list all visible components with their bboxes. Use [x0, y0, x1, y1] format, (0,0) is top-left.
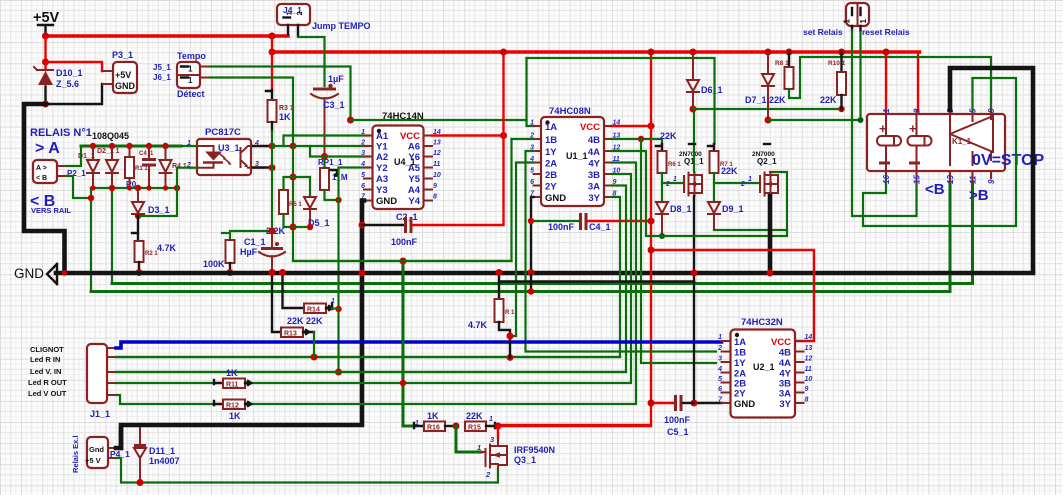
wire GND bus: [56, 271, 1033, 276]
svg-text:2: 2: [665, 181, 670, 188]
wire gate chain down to D8: [661, 183, 663, 202]
svg-text:< B: < B: [36, 175, 47, 182]
svg-text:C3_1: C3_1: [323, 100, 345, 110]
svg-text:13: 13: [946, 175, 955, 184]
svg-text:CLIGNOT: CLIGNOT: [30, 345, 64, 354]
wire Led V IN net: [116, 371, 626, 373]
svg-text:R5 1: R5 1: [289, 202, 302, 208]
resistor R12 1K: [214, 400, 251, 422]
svg-text:R3 1: R3 1: [279, 105, 294, 112]
svg-text:1: 1: [489, 416, 493, 423]
wire D6/Q1 drain net to R10: [693, 108, 842, 110]
svg-text:6: 6: [718, 386, 722, 393]
wire relay pin3 black loop: [950, 68, 1033, 271]
svg-text:12: 12: [805, 356, 813, 363]
wire green over U4 to U1 pin1: [351, 120, 535, 126]
resistor R5: [279, 190, 302, 227]
jumper J4_1 Jump TEMPO: [277, 4, 371, 36]
svg-text:C1_1: C1_1: [244, 237, 266, 247]
svg-text:+5 V: +5 V: [85, 456, 101, 465]
wire red to relay pin1: [885, 52, 887, 110]
wire U4 GND thick black down: [121, 201, 364, 449]
wire U1 4Y down v636: [245, 163, 636, 405]
svg-text:RELAIS N°1: RELAIS N°1: [30, 127, 92, 139]
svg-text:<B: <B: [925, 181, 945, 198]
svg-text:Tempo: Tempo: [177, 51, 206, 61]
GND net label: [14, 264, 57, 284]
relay K1_1: [867, 108, 1005, 184]
svg-text:A3: A3: [376, 174, 388, 185]
svg-text:set Relais: set Relais: [803, 27, 843, 37]
wire U1 3A down v626: [116, 186, 626, 373]
svg-text:Led V OUT: Led V OUT: [28, 389, 67, 398]
svg-text:4: 4: [360, 161, 365, 168]
wire 227 to d5: [293, 226, 310, 228]
wire P4 gnd to thick rail: [116, 429, 121, 448]
wire thick black left rail down to GND bus: [24, 104, 65, 271]
svg-text:3Y: 3Y: [779, 399, 791, 410]
node U1 vcc: [648, 123, 655, 130]
node opto3: [269, 164, 276, 171]
wire D8 net to Q2 drain riser: [662, 172, 787, 236]
svg-text:Y4: Y4: [408, 196, 420, 207]
svg-text:1Y: 1Y: [734, 358, 746, 369]
wire black to R13: [272, 275, 281, 332]
svg-text:6: 6: [361, 183, 365, 190]
svg-text:+5V: +5V: [33, 10, 60, 26]
svg-text:22K: 22K: [820, 95, 837, 105]
wire U1 VCC red to v651: [612, 125, 652, 127]
svg-text:3A: 3A: [779, 389, 791, 400]
wire elbow to U4 A1: [284, 136, 369, 147]
wire green Detect vertical: [210, 78, 293, 147]
wire green y261 line: [293, 260, 512, 262]
wire opto pin3 to node: [253, 166, 272, 168]
resistor R 100K: [203, 240, 235, 276]
wire relay pin5 loop green: [863, 78, 1016, 226]
svg-text:9: 9: [805, 386, 809, 393]
svg-text:>B: >B: [969, 187, 989, 204]
svg-text:1K: 1K: [226, 368, 238, 378]
svg-text:4B: 4B: [779, 348, 791, 359]
svg-text:74HC32N: 74HC32N: [741, 317, 783, 328]
capacitor C1_1 polarized: [240, 231, 285, 276]
wire red v651 full drop: [498, 52, 651, 425]
svg-text:R15: R15: [468, 425, 481, 432]
wire red to P3 +5V pin: [46, 62, 103, 71]
svg-text:10: 10: [433, 172, 441, 179]
svg-text:D9_1: D9_1: [722, 204, 744, 214]
wire v526 drop: [525, 58, 527, 120]
jumper set/reset Relais: [803, 3, 910, 37]
wire Y2 feeder v338: [339, 168, 369, 373]
node pin2 opto bottom row: [174, 185, 180, 191]
svg-text:A1: A1: [376, 131, 389, 142]
jumper J5_1 J6_1 Tempo/Detect: [153, 51, 210, 99]
svg-text:D1_1: D1_1: [78, 153, 95, 160]
svg-text:Q2_1: Q2_1: [757, 157, 777, 166]
wire relay11 long net: [112, 182, 973, 284]
svg-text:1K: 1K: [279, 112, 291, 122]
wire red R15 to v651: [498, 425, 651, 427]
svg-text:GND: GND: [545, 193, 566, 204]
wire red down to D10: [44, 62, 46, 70]
svg-text:HµF: HµF: [240, 247, 258, 257]
svg-text:100nF: 100nF: [664, 415, 691, 425]
svg-text:1: 1: [718, 334, 722, 341]
wire U1 1Y to U2 pin2: [526, 151, 717, 352]
svg-text:1K: 1K: [229, 411, 241, 421]
svg-text:9: 9: [433, 183, 437, 190]
wire D3 to R2: [132, 216, 138, 241]
svg-text:2: 2: [295, 11, 304, 15]
connector P2_1: [33, 160, 86, 183]
svg-text:U4_1: U4_1: [394, 157, 416, 167]
svg-text:1: 1: [859, 19, 868, 24]
svg-text:108Q045: 108Q045: [92, 131, 129, 141]
wire Q1 drain up: [693, 109, 695, 172]
svg-text:1K: 1K: [427, 411, 439, 421]
svg-text:2: 2: [740, 181, 745, 188]
node d5 top: [290, 174, 297, 181]
svg-text:R12: R12: [226, 403, 239, 410]
svg-text:A >: A >: [36, 165, 47, 172]
wire green Tempo to U1 1A rail: [210, 67, 351, 121]
svg-text:C4_1: C4_1: [589, 222, 611, 232]
IC U4_1 74HC14N: [360, 111, 441, 209]
svg-text:D8_1: D8_1: [670, 204, 692, 214]
resistor R 4.7K: [468, 299, 515, 358]
svg-text:P3_1: P3_1: [112, 50, 133, 60]
svg-text:VCC: VCC: [580, 122, 600, 133]
svg-text:14: 14: [805, 334, 813, 341]
svg-text:RP1_1: RP1_1: [318, 158, 343, 167]
diode D9_1: [708, 183, 787, 230]
node Q2 gnd: [767, 270, 774, 277]
svg-text:22K: 22K: [769, 95, 786, 105]
svg-text:R16: R16: [427, 425, 440, 432]
wire +5V mid red rail: [272, 50, 920, 53]
svg-text:1: 1: [748, 176, 752, 183]
+5V power symbol: [33, 10, 60, 35]
svg-text:2: 2: [485, 470, 491, 479]
svg-text:Y3: Y3: [376, 185, 388, 196]
svg-text:8: 8: [987, 108, 996, 113]
svg-text:Gnd: Gnd: [89, 445, 104, 454]
svg-text:1: 1: [331, 298, 335, 305]
node 4B tee: [638, 136, 644, 142]
svg-text:4A: 4A: [779, 358, 791, 369]
svg-text:4.7K: 4.7K: [468, 320, 488, 330]
diode D3_1: [132, 185, 170, 219]
svg-text:5: 5: [361, 172, 365, 179]
diode D2_1: [97, 143, 120, 191]
svg-text:VERS RAIL: VERS RAIL: [31, 206, 71, 215]
wire U1 3Y down v620: [116, 197, 620, 357]
wire to R5 loop: [284, 177, 294, 190]
svg-text:Relais Ex.l: Relais Ex.l: [71, 435, 80, 473]
svg-text:9: 9: [987, 179, 996, 184]
resistor R16 1K: [414, 411, 456, 432]
wire opto pin1 elbow: [181, 145, 196, 147]
diode D11_1 1n4007: [134, 428, 180, 486]
svg-text:8: 8: [805, 397, 809, 404]
diode D5_1: [304, 177, 330, 230]
svg-text:1: 1: [188, 76, 193, 85]
node rp1 bottom: [335, 197, 341, 203]
transistor Q3_1 IRF9540N: [477, 435, 555, 479]
wire segment node to detect column: [272, 145, 293, 147]
wire gate drop: [456, 426, 481, 452]
wire detect v293 down: [293, 139, 512, 261]
svg-text:R6 1: R6 1: [668, 162, 681, 168]
wire black D10 to gnd node: [44, 87, 46, 104]
svg-text:R8 1: R8 1: [775, 60, 789, 67]
wire P4 +5 to bottom green: [116, 458, 498, 483]
svg-text:Jump TEMPO: Jump TEMPO: [312, 21, 371, 31]
svg-text:13: 13: [433, 140, 441, 147]
svg-text:3: 3: [361, 150, 365, 157]
svg-text:Détect: Détect: [177, 89, 205, 99]
node r5 bottom: [290, 224, 297, 231]
svg-text:A6: A6: [408, 142, 420, 153]
svg-text:D7_1: D7_1: [745, 95, 767, 105]
wire d5 top from node: [293, 176, 310, 178]
wire 4.7K gnd chain: [498, 275, 500, 299]
node Q1 gnd: [691, 270, 698, 277]
node red 250: [648, 247, 655, 254]
svg-text:12: 12: [433, 150, 441, 157]
wire green J4 pin2 to C3: [298, 37, 325, 86]
wire relay13 long net: [91, 182, 950, 292]
svg-text:4Y: 4Y: [588, 159, 600, 170]
diode D7_1: [745, 49, 774, 124]
transistor Q1_1 2N7000: [665, 151, 704, 196]
connector J1_1: [28, 344, 116, 419]
svg-text:Z_5.6: Z_5.6: [56, 79, 79, 89]
node U1 gnd bus: [528, 269, 535, 276]
wire U1 4B to R6: [612, 139, 663, 144]
capacitor C5_1 100nF: [648, 395, 695, 437]
svg-text:6: 6: [530, 179, 534, 186]
resistor R2 4.7K: [135, 241, 177, 276]
svg-text:GND: GND: [734, 399, 755, 410]
svg-text:22K: 22K: [660, 131, 677, 141]
wire CLIGNOT blue: [116, 342, 722, 348]
wire v91 down to relay13 net: [90, 188, 92, 292]
svg-text:A4: A4: [408, 185, 421, 196]
IC U2_1 74HC32N: [717, 317, 812, 418]
wire diode row top rail: [81, 145, 181, 148]
wire red down to P3 branch: [44, 36, 46, 62]
svg-text:4.7K: 4.7K: [157, 243, 177, 253]
wire green v272 down: [271, 131, 273, 231]
wire P2 A to diode row top: [66, 146, 81, 166]
svg-text:GND: GND: [14, 266, 44, 281]
wire black to R14: [283, 275, 305, 308]
svg-text:IRF9540N: IRF9540N: [514, 445, 555, 455]
svg-text:reset Relais: reset Relais: [862, 27, 910, 37]
wire opto pin4 to node: [253, 145, 272, 147]
svg-text:1µF: 1µF: [328, 74, 344, 84]
diode D1_1: [78, 143, 99, 191]
wire C4 gnd side: [531, 220, 579, 222]
svg-text:22K: 22K: [466, 411, 483, 421]
resistor R8 22K: [769, 49, 991, 111]
svg-text:2Y: 2Y: [734, 389, 746, 400]
svg-text:11: 11: [805, 366, 812, 373]
diode D8_1: [656, 202, 692, 239]
diode D4_1: [160, 143, 187, 191]
wire gnd stub below bus to relay13 net: [530, 275, 532, 292]
svg-text:A2: A2: [376, 152, 388, 163]
wire +5V red top rail: [46, 34, 289, 37]
svg-text:5: 5: [530, 168, 534, 175]
svg-text:R4 1: R4 1: [172, 163, 187, 170]
resistor R11 1K: [214, 368, 251, 389]
wire U4 VCC red: [432, 134, 504, 136]
svg-text:3: 3: [718, 356, 722, 363]
wire red v503 from +5V rail: [502, 52, 504, 138]
svg-text:+5V: +5V: [115, 70, 131, 80]
svg-text:Y1: Y1: [376, 142, 388, 153]
node R16/R15: [453, 423, 460, 430]
svg-text:100K: 100K: [203, 259, 225, 269]
svg-text:3A: 3A: [588, 182, 600, 193]
node U4 vcc join: [500, 132, 507, 139]
wire Led V OUT to R12: [116, 395, 214, 404]
svg-text:13: 13: [805, 345, 813, 352]
transistor Q2_1 2N7000: [740, 144, 778, 196]
node D10 bottom: [42, 101, 49, 108]
wire P3 GND down to node: [46, 84, 103, 104]
wire D7 net to reset column: [768, 30, 861, 120]
svg-text:2: 2: [360, 140, 365, 147]
resistor R6 22K: [656, 131, 684, 183]
svg-text:1: 1: [530, 120, 534, 127]
svg-text:100nF: 100nF: [548, 222, 575, 232]
node detect146: [290, 143, 297, 150]
svg-text:J5_1: J5_1: [153, 63, 171, 72]
svg-text:D10_1: D10_1: [56, 68, 83, 78]
node branch P3: [42, 59, 49, 66]
node 2A pulldown: [507, 333, 514, 340]
node gnd left: [62, 270, 68, 276]
wire red drop J4 to mid rail: [271, 36, 273, 52]
wire tempo net over U1 to R7 gate: [527, 58, 715, 144]
svg-text:D11_1: D11_1: [149, 446, 175, 456]
wire Led R IN net (straight to v620 corner): [116, 356, 620, 358]
svg-text:1: 1: [882, 108, 891, 113]
wire 100K top rail: [222, 231, 272, 240]
wire Q1 source down to bus: [693, 196, 695, 282]
wire v641 to U2 3B: [641, 139, 716, 363]
svg-text:8: 8: [433, 194, 437, 201]
svg-text:Led R OUT: Led R OUT: [28, 378, 67, 387]
wire black R3 to opto pin4 node: [271, 122, 273, 131]
svg-text:1: 1: [843, 19, 852, 24]
svg-text:11: 11: [969, 175, 978, 184]
svg-text:2: 2: [717, 345, 722, 352]
capacitor C3_1 1uF: [311, 74, 345, 156]
svg-text:1B: 1B: [545, 135, 557, 146]
wire U1 2A down: [510, 163, 534, 337]
node 403: [400, 258, 407, 265]
IC U1_1 74HC08N: [529, 106, 620, 206]
wire Y1 feeder: [293, 145, 368, 147]
svg-text:VCC: VCC: [400, 131, 420, 142]
node v651 top: [648, 49, 655, 56]
svg-text:2Y: 2Y: [545, 182, 557, 193]
svg-text:4: 4: [717, 366, 722, 373]
resistor R15 22K: [465, 411, 498, 432]
svg-text:2A: 2A: [545, 159, 557, 170]
wire Q2 source thick down: [768, 196, 773, 273]
wire v112 D2 down to relay11 net: [111, 188, 113, 284]
node R10 bottom: [838, 106, 844, 112]
svg-text:Y5: Y5: [408, 174, 420, 185]
node stub join: [528, 288, 534, 294]
node v91: [88, 195, 94, 201]
resistor R13 22K: [281, 328, 314, 358]
svg-text:C4_1: C4_1: [139, 151, 154, 157]
wire Led R OUT to R11: [116, 382, 214, 384]
wire D3 loop to opto pin2 column: [138, 188, 177, 216]
svg-text:1n4007: 1n4007: [149, 456, 180, 466]
svg-text:J6_1: J6_1: [153, 73, 171, 82]
svg-text:K1_1: K1_1: [952, 137, 972, 146]
svg-text:Q3_1: Q3_1: [514, 455, 536, 465]
diode D6_1: [687, 49, 723, 113]
resistor R14 22K: [304, 298, 339, 314]
svg-text:U2_1: U2_1: [753, 362, 775, 372]
node R11 tee: [400, 380, 406, 386]
capacitor C4_1 100nF: [548, 213, 655, 232]
wire U1 3B down v631: [245, 174, 631, 383]
resistor R10 22K: [820, 49, 846, 110]
wire red rail right segment to U2 VCC: [651, 250, 814, 341]
wire red to relay pin2: [917, 52, 919, 110]
wire red down to R3 1K: [271, 52, 273, 90]
svg-text:C5_1: C5_1: [667, 427, 689, 437]
svg-text:1: 1: [361, 129, 365, 136]
resistor R1: [125, 143, 148, 191]
node J4 red junction: [269, 33, 276, 40]
svg-text:1: 1: [673, 176, 677, 183]
svg-text:1: 1: [188, 65, 193, 74]
svg-text:D3_1: D3_1: [148, 205, 170, 215]
svg-text:Led V. IN: Led V. IN: [30, 367, 61, 376]
node r14 out: [335, 306, 341, 312]
svg-text:R13: R13: [284, 331, 297, 338]
svg-text:74HC14N: 74HC14N: [382, 111, 424, 122]
wire A2 feeder: [310, 146, 368, 157]
svg-text:100nF: 100nF: [391, 237, 418, 247]
node mid rail: [269, 49, 276, 56]
svg-text:1Y: 1Y: [545, 147, 557, 158]
svg-text:1A: 1A: [734, 337, 746, 348]
svg-text:J1_1: J1_1: [90, 409, 110, 419]
wire U1 4A down v646 to D8 net: [612, 151, 663, 236]
svg-text:R 1: R 1: [505, 310, 515, 316]
wire diode row bottom rail: [91, 187, 177, 189]
node top-left junction: [42, 33, 49, 40]
svg-text:D6_1: D6_1: [701, 85, 723, 95]
svg-text:3Y: 3Y: [588, 193, 600, 204]
node tempo rail: [347, 117, 354, 124]
wire U1 1B down to 261: [512, 138, 534, 140]
svg-text:1: 1: [477, 443, 481, 452]
